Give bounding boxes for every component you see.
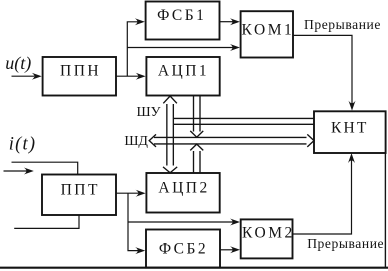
- wire FSB1 to KOM1: [220, 21, 234, 23]
- svg-text:АЦП2: АЦП2: [158, 179, 209, 196]
- svg-text:ФСБ1: ФСБ1: [157, 7, 206, 24]
- wire KOM1 output to KNT top: [293, 35, 352, 104]
- block KNT: [314, 111, 386, 153]
- wire PPT bottom return line: [14, 215, 79, 228]
- block ACP2: [146, 173, 219, 213]
- wire PPN to ACP1 with branch junction: [116, 75, 138, 77]
- bus H2 horizontal ShD with arrows both ends: [149, 134, 314, 147]
- bottom rule line: [0, 267, 388, 269]
- svg-text:КОМ2: КОМ2: [242, 225, 295, 242]
- block KOM1: [241, 11, 295, 57]
- bus H1 horizontal to KNT: [173, 118, 314, 124]
- svg-text:i(t): i(t): [9, 134, 36, 154]
- block PPT: [42, 175, 116, 216]
- svg-text:ШУ: ШУ: [136, 105, 160, 120]
- bus V2 from ACP1 down to ShD bus: [190, 96, 203, 138]
- wire u(t) input arrow: [12, 73, 42, 80]
- bus V1 vertical ACP1-ACP2 (ShU): [163, 96, 177, 173]
- svg-text:КОМ1: КОМ1: [242, 22, 295, 39]
- block FSB1: [146, 2, 220, 40]
- svg-text:АЦП1: АЦП1: [158, 63, 209, 80]
- block KOM2: [241, 219, 295, 258]
- wire branch up from PPN output to FSB1: [127, 22, 138, 76]
- wire long line to KOM2 upper input: [128, 221, 233, 223]
- svg-text:КНТ: КНТ: [331, 120, 369, 137]
- block FSB2: [146, 230, 220, 268]
- wire PPT to ACP2: [116, 192, 138, 194]
- block ACP1: [146, 57, 219, 96]
- svg-text:u(t): u(t): [5, 53, 31, 74]
- wire KOM2 output to KNT bottom: [293, 160, 352, 234]
- svg-text:ППН: ППН: [60, 62, 101, 79]
- wire branch down from PPT output to FSB2: [128, 193, 139, 250]
- svg-text:Прерывание: Прерывание: [304, 17, 381, 32]
- right edge vertical from KNT bottom-right corner down to bottom rule: [384, 153, 386, 268]
- svg-text:ШД: ШД: [124, 134, 148, 149]
- wire FSB2 to KOM2: [220, 249, 233, 251]
- block PPN: [43, 57, 116, 96]
- bus V3 from ShD bus down to ACP2: [190, 144, 203, 173]
- wire long line to KOM1 lower input: [127, 47, 233, 49]
- svg-text:ППТ: ППТ: [61, 182, 100, 199]
- svg-text:ФСБ2: ФСБ2: [159, 241, 208, 258]
- wire i(t) short arrow: [4, 168, 34, 175]
- wire i(t) line into PPT top: [12, 162, 78, 174]
- svg-text:Прерывание: Прерывание: [307, 236, 384, 251]
